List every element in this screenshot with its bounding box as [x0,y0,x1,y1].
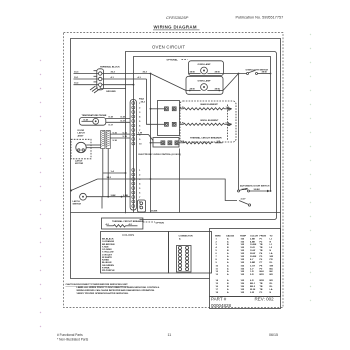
svg-text:PART #: PART # [211,297,227,302]
svg-text:3-GY: 3-GY [241,199,247,201]
wire chart table box [210,229,281,297]
svg-text:9-16: 9-16 [113,140,118,142]
svg-text:2: 2 [216,241,218,243]
terminal block connector [94,69,104,90]
svg-text:2: 2 [139,107,141,109]
svg-text:ELECTRONIC OVEN CONTROL (LV BO: ELECTRONIC OVEN CONTROL (LV BOX) [139,154,182,156]
wire latch branch right [103,172,126,174]
svg-text:DL: DL [270,262,274,264]
svg-text:3: 3 [216,244,218,246]
part number box [210,297,281,309]
svg-text:150: 150 [241,283,245,285]
svg-text:2-V: 2-V [250,268,254,270]
svg-text:WIRING DIAGRAM: WIRING DIAGRAM [154,25,197,30]
svg-text:P2: P2 [260,241,263,243]
svg-text:6-R: 6-R [250,280,254,282]
svg-text:13: 13 [216,274,219,276]
svg-text:BR: BR [270,274,274,276]
svg-text:15: 15 [216,283,219,285]
section divider line [71,212,281,214]
oven lamp 2 enclosure [186,76,223,94]
svg-text:GAUGE: GAUGE [226,234,235,237]
svg-text:W-38: W-38 [250,289,256,291]
svg-text:4-1: 4-1 [111,76,115,79]
wire latch to EOC pin 9-16 [110,137,130,139]
svg-text:OVEN LAMP: OVEN LAMP [198,80,212,83]
svg-text:B: B [227,247,229,249]
svg-text:8-18: 8-18 [84,120,89,122]
svg-text:6-R: 6-R [180,122,184,124]
svg-text:TEMPERATURE PROBE: TEMPERATURE PROBE [82,114,107,117]
svg-text:N: N [270,292,272,294]
svg-text:2-BK: 2-BK [250,238,256,240]
svg-text:9-16: 9-16 [123,136,128,138]
vertical feed bus to relay box and door switch [150,74,152,213]
wire L1 from terminal block [74,73,99,75]
svg-text:LABEL ALL WIRES PRIOR TO DISCO: LABEL ALL WIRES PRIOR TO DISCONNECTION W… [77,286,161,289]
svg-text:COLORS: COLORS [122,233,134,237]
wire N from terminal block [74,78,99,80]
svg-text:A: A [227,252,229,255]
element terminal circles [228,108,230,110]
svg-text:30-BK: 30-BK [242,189,249,191]
svg-text:A: A [227,240,229,243]
svg-text:38-2: 38-2 [107,177,112,179]
svg-text:LATCH: LATCH [78,132,86,135]
svg-text:105: 105 [241,244,245,246]
svg-text:10-W: 10-W [250,250,256,252]
svg-text:105: 105 [241,256,245,258]
svg-text:PR-PURPLE: PR-PURPLE [102,270,115,272]
wire motor to connector lower [86,147,101,149]
svg-text:Publication No. 5995517757: Publication No. 5995517757 [236,16,284,20]
svg-text:105: 105 [241,271,245,273]
svg-text:BR1: BR1 [260,274,265,276]
svg-text:10: 10 [216,265,219,267]
svg-text:P5: P5 [260,256,263,258]
EOC connector strip upper [130,100,136,211]
wire chassis diagonal to feed [70,190,72,192]
svg-text:P1: P1 [260,238,263,240]
wire diagonal lamp 2 up to junction [223,74,239,91]
EOC pin numbers [139,103,142,146]
svg-text:TB: TB [260,283,263,285]
svg-text:TERMINAL BLOCK: TERMINAL BLOCK [100,65,120,68]
svg-text:1: 1 [216,238,218,240]
svg-text:DOOR: DOOR [78,130,85,132]
svg-text:105: 105 [241,280,245,282]
svg-text:THERMAL CIRCUIT BREAKER: THERMAL CIRCUIT BREAKER [112,220,144,223]
svg-text:18: 18 [216,292,219,294]
svg-text:11: 11 [168,333,172,337]
svg-text:N: N [270,250,272,252]
svg-text:8-17: 8-17 [121,121,126,123]
svg-text:LATCH: LATCH [75,160,83,163]
option label [143,221,155,223]
wire N right run [102,78,147,80]
svg-text:TEMP: TEMP [240,235,247,237]
svg-text:OPTION: OPTION [156,223,165,225]
svg-text:38-2: 38-2 [141,102,146,104]
svg-text:6: 6 [139,125,141,127]
svg-text:5-R: 5-R [250,274,254,276]
svg-text:4-BK: 4-BK [250,240,256,243]
svg-text:BA1: BA1 [260,270,265,273]
svg-text:OVEN LAMP: OVEN LAMP [198,63,212,66]
wire chart header [215,234,273,237]
svg-text:BAKE ELEMENT: BAKE ELEMENT [201,103,219,106]
svg-text:3: 3 [139,112,141,114]
svg-text:A: A [227,255,229,258]
svg-text:9-15: 9-15 [113,132,118,134]
svg-text:10-BK: 10-BK [250,244,257,246]
svg-text:06/15: 06/15 [269,333,278,337]
probe wire right to EOC lower [106,121,130,123]
svg-text:3-BK: 3-BK [111,195,117,197]
svg-text:GROUND: GROUND [106,91,116,93]
svg-text:6: 6 [139,192,141,194]
svg-text:TO: TO [270,235,273,237]
junction node L1 [150,73,152,75]
svg-text:P3: P3 [260,292,263,294]
svg-text:8: 8 [216,259,218,261]
oven circuit outer routing box A [126,52,277,220]
svg-text:CFES3025P: CFES3025P [166,15,189,20]
svg-text:105: 105 [241,262,245,264]
oven circuit inner routing box C [134,57,271,192]
svg-text:# Functional Parts: # Functional Parts [57,333,83,337]
colors legend box [101,232,169,274]
wire diagonal to lamp 2 [151,74,187,91]
svg-text:A: A [227,270,229,273]
svg-text:30-3: 30-3 [143,72,148,74]
svg-text:8-18: 8-18 [121,117,126,119]
svg-text:4: 4 [216,246,218,249]
svg-text:9-BR: 9-BR [250,262,256,264]
svg-text:N: N [270,241,272,243]
latch motor dashed enclosure [71,139,91,159]
svg-text:L1: L1 [270,238,273,240]
svg-text:TB: TB [260,289,263,291]
svg-text:2-R: 2-R [180,107,184,109]
svg-text:5: 5 [139,188,141,190]
svg-text:A: A [227,279,229,282]
svg-text:P1 #: P1 # [139,99,144,101]
svg-text:SW: SW [270,265,274,267]
svg-text:P9: P9 [260,268,263,270]
svg-text:* Non-Illustrated Parts: * Non-Illustrated Parts [57,338,89,342]
thermal breaker option box [102,218,143,229]
svg-text:LATCH: LATCH [73,200,81,203]
EOC lower vertical wires [179,149,181,213]
svg-text:CONNECTOR: CONNECTOR [179,236,193,238]
wire lamp junction down to door switch [238,74,240,191]
connector A pin grid [177,246,192,273]
svg-text:105: 105 [241,238,245,240]
svg-text:14: 14 [216,279,219,282]
binding perforation dots left [40,60,41,327]
svg-text:16: 16 [216,286,219,288]
svg-text:1-R: 1-R [250,271,254,273]
latch switch [80,193,87,200]
svg-text:A: A [227,291,229,294]
svg-text:4-1: 4-1 [138,76,142,79]
svg-text:PR: PR [270,259,273,261]
svg-text:105: 105 [241,292,245,294]
svg-text:9-15: 9-15 [123,132,128,134]
svg-text:TB: TB [260,247,263,249]
svg-text:105: 105 [241,265,245,267]
svg-text:2-R: 2-R [181,141,185,143]
svg-text:10-2: 10-2 [74,83,79,85]
svg-text:TB: TB [260,286,263,288]
svg-text:12: 12 [216,271,219,273]
svg-text:BR2: BR2 [260,280,265,282]
svg-text:105: 105 [241,241,245,243]
svg-text:T-TAN: T-TAN [102,245,109,248]
probe wire right to EOC upper [106,118,130,120]
relay K1 [158,107,177,111]
svg-text:P7: P7 [260,262,263,264]
svg-text:A: A [227,267,229,270]
connector A box [169,232,212,274]
relay K2 [158,122,177,126]
svg-text:RL: RL [270,283,274,285]
binding perforation dots right [310,34,311,301]
svg-text:105: 105 [241,253,245,255]
latch motor [76,142,86,152]
svg-text:B: B [227,250,229,252]
svg-text:105: 105 [241,268,245,270]
svg-text:B: B [227,286,229,288]
svg-text:OVEN CIRCUIT: OVEN CIRCUIT [152,45,185,50]
svg-text:10-R: 10-R [250,247,255,249]
svg-text:BROIL ELEMENT: BROIL ELEMENT [201,120,219,122]
svg-text:10-1: 10-1 [74,77,79,79]
EOC connector strip lower [132,169,135,208]
svg-text:ASSY: ASSY [78,134,84,137]
svg-text:B: B [227,283,229,285]
oven light switch [247,73,249,75]
svg-text:38-W: 38-W [250,253,256,255]
svg-text:105: 105 [241,274,245,276]
svg-text:BK-BLACK: BK-BLACK [102,238,114,241]
svg-text:BK: BK [270,271,274,273]
main solid frame [71,39,281,297]
svg-text:MOTOR: MOTOR [75,163,84,165]
vertical feed wire N to relay box [147,79,158,124]
svg-text:105: 105 [241,247,245,249]
wire latch bottom run [101,197,103,209]
svg-text:38-BK: 38-BK [151,211,158,213]
svg-text:10-3: 10-3 [74,72,79,74]
temperature probe plug [80,118,106,126]
wire lamp 1 to switch junction [224,73,247,75]
latch connector hatched blocks [101,131,111,149]
wire motor to connector upper [86,144,101,146]
svg-text:L1: L1 [270,244,273,246]
svg-text:6: 6 [216,253,218,255]
svg-text:30-3: 30-3 [111,72,116,74]
caution note text [66,283,161,295]
svg-text:SWITCH: SWITCH [73,204,82,206]
svg-text:LA: LA [270,288,273,291]
svg-text:THERMAL CIRCUIT BREAKER: THERMAL CIRCUIT BREAKER [190,137,222,140]
svg-text:WIRE: WIRE [215,235,221,237]
svg-text:A: A [227,264,229,267]
wire latch to EOC pin 9-15 [110,133,130,135]
wire EOC pin to K3 [137,134,149,136]
svg-text:A: A [227,237,229,240]
svg-text:SW: SW [270,256,274,258]
svg-text:2-W: 2-W [250,292,255,294]
ground wire [100,88,126,90]
svg-text:CAUTION:DISCONNECT POWER BEFOR: CAUTION:DISCONNECT POWER BEFORE SERVICIN… [66,283,129,286]
svg-text:10: 10 [139,143,142,145]
colors legend rows [102,238,115,272]
svg-text:P8: P8 [260,265,263,267]
svg-text:3-BK: 3-BK [123,195,129,197]
automatic door switch 1 [238,190,240,192]
svg-text:00004828: 00004828 [211,303,232,308]
thermal circuit breaker [179,142,185,144]
wire L2 from terminal block [74,84,99,86]
svg-text:B: B [227,244,229,246]
broil element [180,123,184,125]
svg-text:1: 1 [139,170,141,172]
svg-text:A: A [179,238,181,241]
svg-text:105: 105 [241,250,245,252]
relay K3 [161,141,179,145]
svg-text:LA: LA [270,252,273,255]
svg-text:OPTIONAL: OPTIONAL [167,59,179,62]
svg-text:8-18: 8-18 [109,117,114,119]
svg-text:5: 5 [139,121,141,123]
svg-text:9: 9 [139,139,141,141]
svg-text:WIRING ERRORS CAN CAUSE IMPROP: WIRING ERRORS CAN CAUSE IMPROPER AND DAN… [77,289,156,292]
svg-text:BA: BA [270,267,274,270]
connector A1 at EOC strip bottom [138,200,146,212]
svg-text:7: 7 [216,256,218,258]
wire L2 right run [102,84,134,86]
svg-text:BK-2: BK-2 [250,286,256,288]
svg-text:RL: RL [270,286,274,288]
svg-text:30-BK: 30-BK [250,256,257,258]
svg-text:A: A [227,261,229,264]
svg-text:A: A [227,288,229,291]
svg-text:8-Y: 8-Y [250,259,254,261]
svg-text:7: 7 [139,197,141,199]
svg-text:REV: 002: REV: 002 [255,297,275,302]
svg-text:11: 11 [216,268,219,270]
svg-text:BK-1: BK-1 [250,283,256,285]
svg-text:17: 17 [216,289,219,291]
svg-text:O-ORANGE: O-ORANGE [102,240,115,243]
svg-text:8-17: 8-17 [109,125,114,127]
svg-text:7: 7 [139,130,141,132]
relay K3 enclosure [153,138,179,148]
svg-text:FROM: FROM [260,235,267,237]
svg-text:TB: TB [260,244,263,246]
svg-text:2: 2 [139,174,141,176]
svg-text:AUTOMATIC DOOR SWITCH: AUTOMATIC DOOR SWITCH [240,184,270,187]
wire L1 right run to junction [102,73,151,75]
automatic door switch 2 [239,201,248,205]
svg-text:A: A [227,273,229,276]
svg-text:L2: L2 [270,247,273,249]
svg-text:4: 4 [139,115,141,118]
wire chart rows [216,237,274,294]
svg-text:A: A [227,258,229,261]
ground symbol [90,86,100,93]
svg-text:P6: P6 [260,259,263,261]
svg-text:5: 5 [216,250,218,252]
svg-text:GY-GRAY: GY-GRAY [102,248,112,251]
svg-text:30-BK: 30-BK [254,189,261,191]
svg-text:3-GY: 3-GY [250,265,256,267]
outer dashed page border [64,33,284,308]
svg-text:TB: TB [260,250,263,252]
wire EOC to door switch feed [98,179,238,201]
svg-text:P4: P4 [260,252,263,255]
svg-text:9: 9 [216,262,218,264]
oven lamp 1 enclosure [189,61,224,76]
svg-text:150: 150 [241,286,245,288]
bake element [180,108,184,110]
svg-text:BR: BR [270,280,274,282]
oven cavity dashed box [180,101,236,142]
EOC relay box [158,101,180,136]
svg-text:4: 4 [139,182,141,185]
svg-text:1-R: 1-R [217,141,221,143]
svg-text:105: 105 [241,289,245,291]
svg-text:VERIFY PROPER OPERATION AFTER: VERIFY PROPER OPERATION AFTER SERVICING. [77,292,130,295]
vertical wires from latch connector down [102,149,104,197]
svg-text:COLOR: COLOR [250,235,258,237]
svg-text:105: 105 [241,259,245,261]
